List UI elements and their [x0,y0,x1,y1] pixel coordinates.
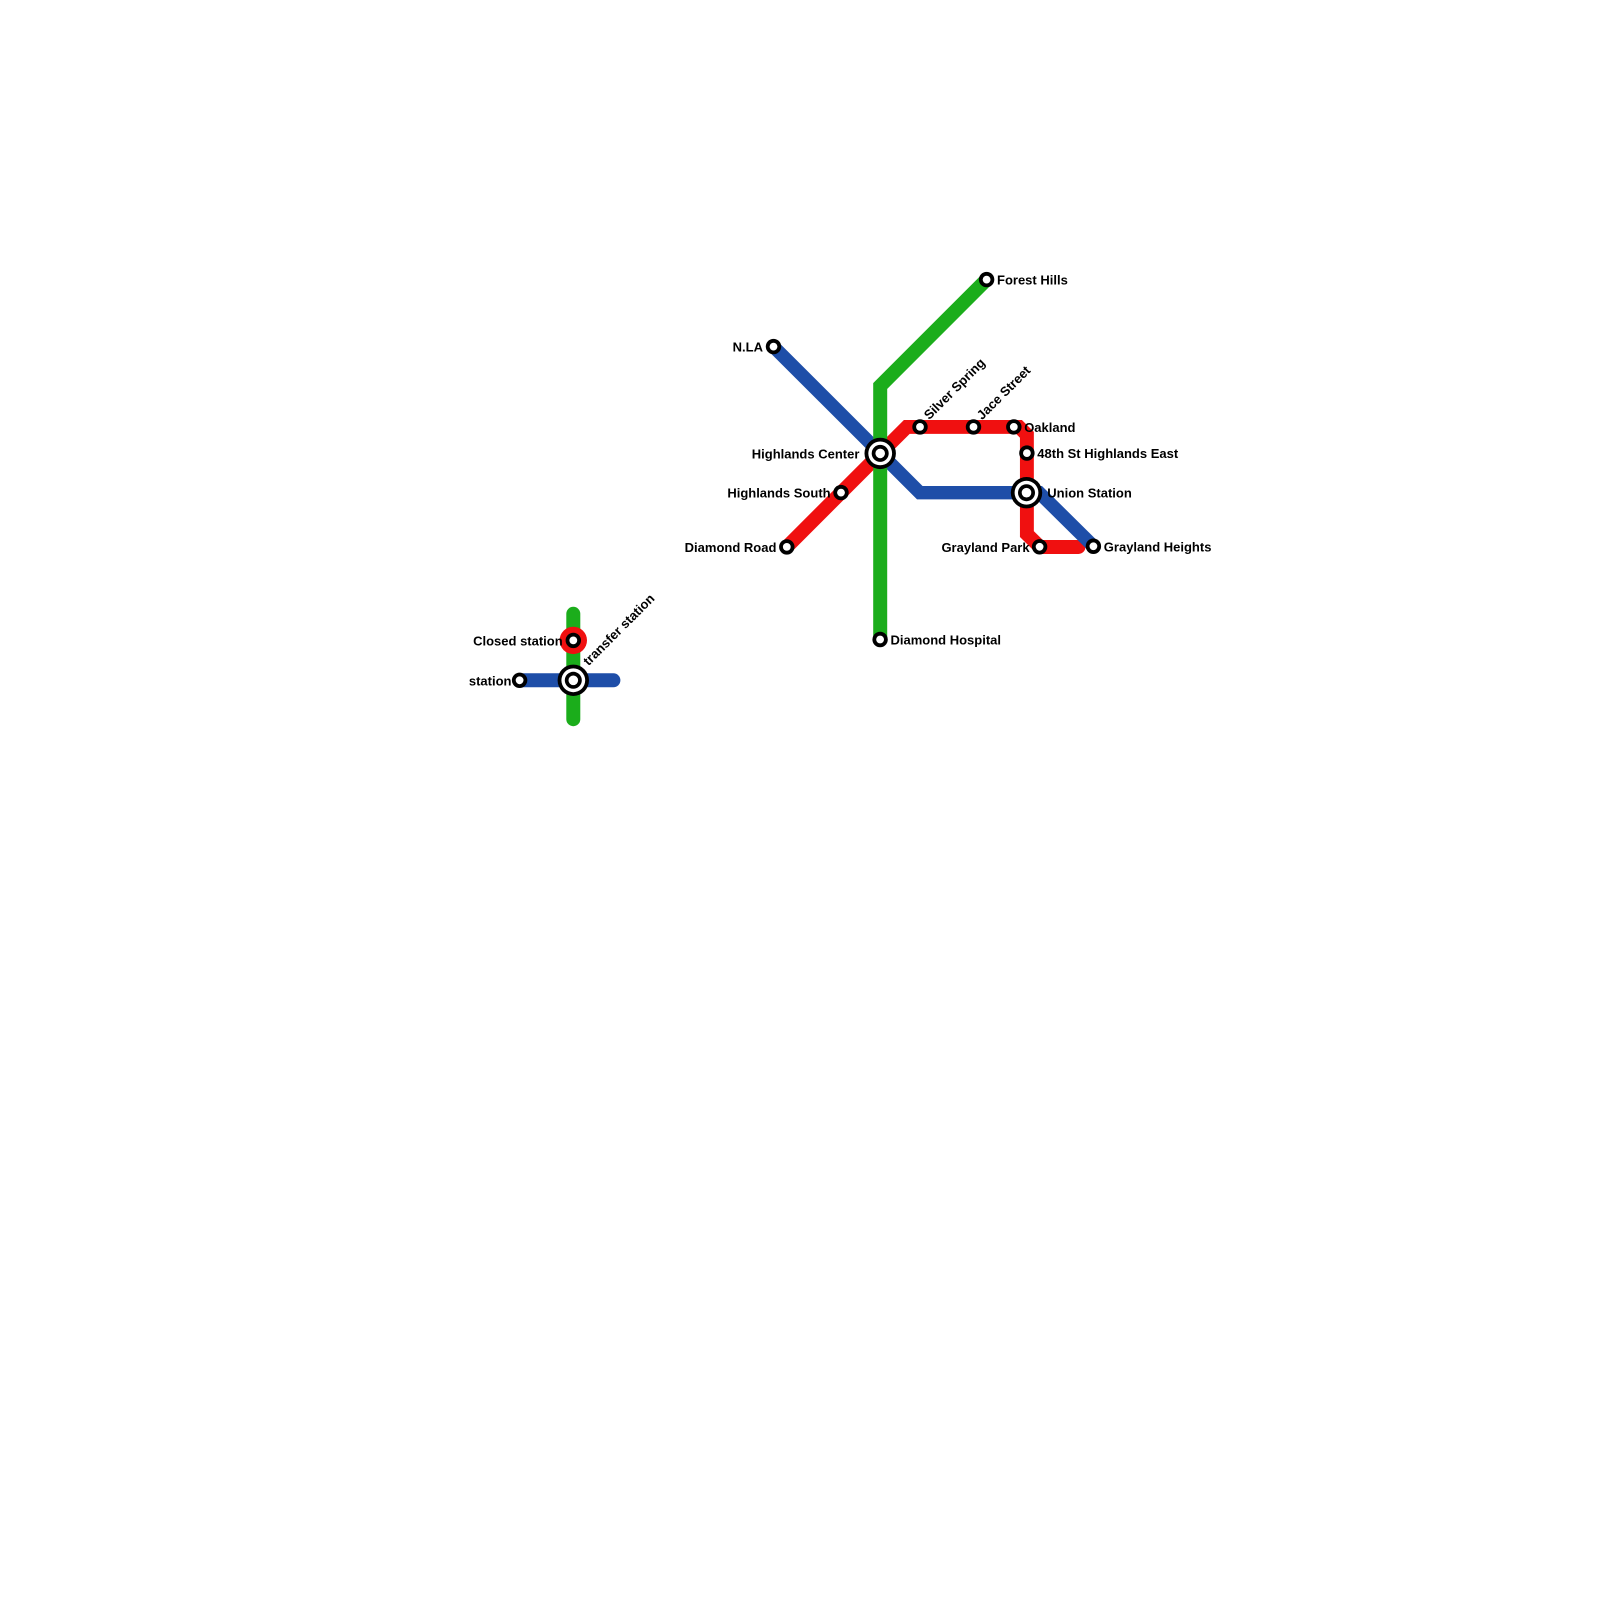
green line (Forest Hills - Diamond Hospital) [880,280,986,640]
svg-text:Union Station: Union Station [1047,486,1132,501]
station Diamond Road [779,539,794,554]
station 48th St Highlands East [1019,445,1034,460]
legend transfer station [558,665,589,696]
svg-text:Grayland Heights: Grayland Heights [1104,539,1212,554]
svg-text:Diamond Road: Diamond Road [685,540,777,555]
legend station [512,673,527,688]
legend closed station [560,627,587,654]
station Grayland Park [1032,539,1047,554]
svg-text:Closed station: Closed station [473,633,563,648]
station Jace Street [966,419,981,434]
svg-text:N.LA: N.LA [733,340,764,355]
svg-text:Highlands Center: Highlands Center [752,446,860,461]
station Grayland Heights [1086,539,1101,554]
svg-text:Highlands South: Highlands South [727,486,830,501]
svg-text:Grayland Park: Grayland Park [941,540,1030,555]
svg-text:Forest Hills: Forest Hills [997,273,1068,288]
red line (Diamond Road - Grayland Park branch) [787,427,1079,547]
transfer station Union Station [1011,477,1042,508]
legend blue line [520,673,614,687]
station Oakland [1006,419,1021,434]
svg-text:station: station [469,673,512,688]
station Silver Spring [912,419,927,434]
legend green line [566,614,580,719]
station Diamond Hospital [872,632,887,647]
svg-text:48th St Highlands East: 48th St Highlands East [1037,446,1179,461]
transfer station Highlands Center [865,438,896,469]
svg-text:Oakland: Oakland [1024,420,1075,435]
svg-text:Diamond Hospital: Diamond Hospital [891,633,1002,648]
station Forest Hills [979,272,994,287]
blue line (N.LA - Grayland Heights) [774,347,1094,547]
station Highlands South [833,485,848,500]
station N.LA [766,339,781,354]
